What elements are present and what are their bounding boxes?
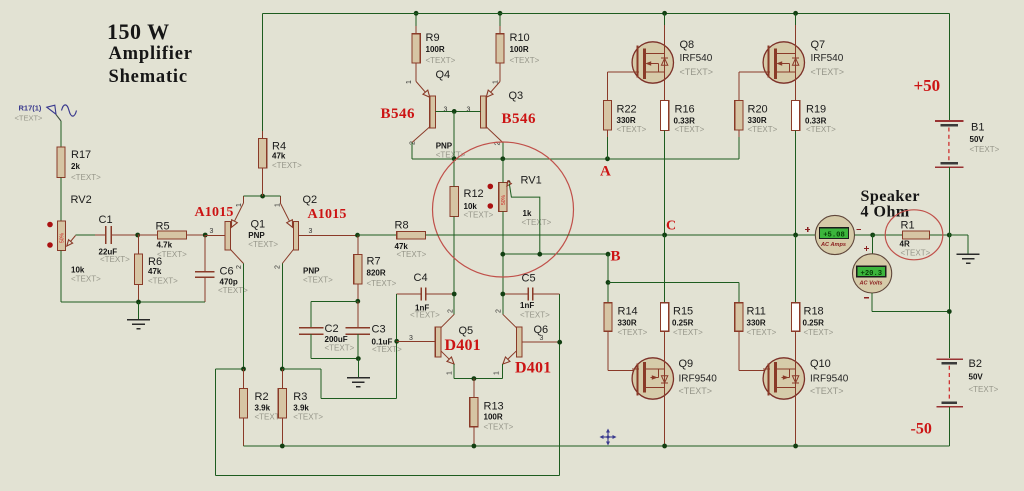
wire node B row [503,253,608,255]
svg-text:<TEXT>: <TEXT> [510,56,540,65]
svg-text:R12: R12 [464,188,484,200]
svg-text:<TEXT>: <TEXT> [522,218,552,227]
node Q1/R2 [241,367,246,372]
svg-text:Q2: Q2 [303,194,318,206]
label -50 [911,421,932,438]
svg-text:<TEXT>: <TEXT> [618,328,648,337]
svg-text:3: 3 [540,335,544,342]
capacitor C3 [346,301,403,354]
wire +50 rail [263,13,950,121]
svg-text:<TEXT>: <TEXT> [272,161,302,170]
wire C4 left column [396,294,398,399]
mosfet Q7 [763,39,844,83]
node C Q8 column [662,233,667,238]
node B wiper [537,252,542,257]
node base junction [452,109,457,114]
svg-text:C5: C5 [522,273,536,285]
svg-text:IRF9540: IRF9540 [679,374,718,385]
svg-text:2k: 2k [71,162,80,171]
capacitor C2 [299,323,355,353]
svg-text:150 W: 150 W [107,19,170,44]
ground mid [347,359,370,387]
node R10 top [498,11,503,16]
wire node C row [426,234,873,236]
node R13 bottom [472,444,477,449]
svg-text:R1: R1 [901,220,915,232]
wire B2 to bottom rail [948,407,950,446]
svg-text:<TEXT>: <TEXT> [15,114,44,123]
resistor R15 [661,235,704,337]
voltmeter [853,235,950,312]
svg-text:C: C [666,219,676,234]
svg-text:1: 1 [236,203,243,207]
resistor R14 [604,303,648,337]
node Q7 drain top [793,11,798,16]
resistor R22 [603,101,646,159]
wire B branch to R11 [608,282,739,302]
ground left [127,302,150,329]
transistor Q1 [205,196,278,263]
pin numbers Q1 [210,203,244,269]
svg-text:Speaker: Speaker [861,188,921,205]
svg-text:<TEXT>: <TEXT> [248,240,278,249]
node voltmeter tap [870,233,875,238]
battery B1 [935,121,999,167]
svg-text:2: 2 [448,309,455,313]
label B546 Q3 [502,111,537,127]
svg-text:<TEXT>: <TEXT> [617,125,647,134]
svg-text:330R: 330R [747,319,766,328]
svg-text:RV1: RV1 [521,175,542,187]
svg-text:0.25R: 0.25R [672,319,694,328]
svg-text:1: 1 [447,371,454,375]
resistor R13 [470,379,514,446]
wire R19 to C [795,130,797,235]
svg-text:<TEXT>: <TEXT> [747,328,777,337]
wire Q4 collector to A [411,143,413,159]
svg-text:<TEXT>: <TEXT> [325,344,355,353]
svg-text:D401: D401 [445,337,481,354]
svg-text:C2: C2 [325,323,339,335]
wire node A row [412,130,739,159]
wire left ground rail [61,250,205,302]
svg-text:C6: C6 [220,266,234,278]
node R6 bottom [136,300,141,305]
node Q10 bottom [793,444,798,449]
wire R12 column [453,159,455,314]
label A1015 Q2 [308,207,347,222]
svg-text:B: B [611,249,621,265]
resistor R8 [358,220,427,260]
svg-text:R15: R15 [673,306,693,318]
svg-text:Q3: Q3 [509,90,524,102]
pin numbers Q3 [467,80,502,146]
wire Q8 gate [608,72,632,101]
wire Q5 emitter [453,364,455,378]
svg-text:<TEXT>: <TEXT> [464,211,494,220]
node B branch [606,280,611,285]
capacitor C4 [397,272,455,320]
svg-text:Q7: Q7 [811,39,826,51]
label B546 Q4 [381,106,416,122]
node Q6 base feedback [557,340,562,345]
node C Q7 column [793,233,798,238]
svg-text:<TEXT>: <TEXT> [372,345,402,354]
wire feedback bottom [215,294,559,475]
node R13 top [472,376,477,381]
svg-text:R3: R3 [293,391,307,403]
svg-text:100R: 100R [510,45,529,54]
svg-text:<TEXT>: <TEXT> [673,328,703,337]
svg-text:A1015: A1015 [195,205,234,220]
resistor R2 [239,369,284,446]
wire emitter rail Q1-Q2 [244,195,281,197]
resistor R12 [450,184,494,220]
svg-text:R5: R5 [156,221,170,233]
svg-text:50V: 50V [969,372,984,381]
wire Q4-Q3 bases [435,110,480,112]
svg-text:<TEXT>: <TEXT> [811,67,845,77]
capacitor C6 [195,235,248,302]
svg-text:3: 3 [409,335,413,342]
transistor Q5 [397,314,473,364]
svg-text:50V: 50V [970,135,985,144]
svg-text:+5.08: +5.08 [823,231,845,239]
node Q2 base/R7/R8 [355,233,360,238]
svg-text:D401: D401 [515,360,551,377]
node R5/Q1 base/C6 [203,233,208,238]
svg-text:RV2: RV2 [71,194,92,206]
wire emitter rail Q5-Q6 [454,378,502,380]
resistor R4 [259,13,303,196]
svg-text:1: 1 [275,203,282,207]
svg-text:PNP: PNP [436,142,453,151]
pin numbers Q6 [494,309,544,375]
svg-text:<TEXT>: <TEXT> [410,311,440,320]
resistor R7 [354,235,397,301]
wire feedback top [215,369,243,475]
annotation ellipse speaker [885,210,943,260]
resistor R10 [496,13,540,81]
node Q8 drain top [662,11,667,16]
wire R7 to C2 [311,301,358,327]
wire Q7 gate [739,72,763,101]
svg-text:<TEXT>: <TEXT> [426,56,456,65]
label +50 [914,76,941,95]
node B right [606,252,611,257]
label node C [666,219,676,234]
svg-text:100R: 100R [426,45,445,54]
svg-text:<TEXT>: <TEXT> [970,145,1000,154]
resistor R17 [57,147,101,182]
node Q5 base [394,339,399,344]
wire Q10 gate [739,331,770,370]
transistor Q4 [412,69,466,160]
pin numbers Q4 [406,80,448,145]
wire Q3 collector down [502,143,504,159]
svg-text:820R: 820R [367,269,386,278]
node Q2/R3 [280,367,285,372]
svg-text:A1015: A1015 [308,207,347,222]
resistor R1 [873,220,950,258]
wire RV1 wiper [509,184,540,255]
svg-text:<TEXT>: <TEXT> [148,277,178,286]
svg-text:<TEXT>: <TEXT> [901,249,931,258]
svg-text:R22: R22 [617,103,637,115]
mosfet Q8 [632,39,713,83]
resistor R20 [735,101,778,135]
origin marker [600,429,617,446]
wire bases down to A [453,111,455,158]
wire Q9 gate [608,331,639,370]
mosfet Q10 [763,358,849,399]
capacitor C1 [95,214,138,264]
svg-text:Amplifier: Amplifier [109,44,193,64]
svg-text:1: 1 [494,371,501,375]
svg-text:<TEXT>: <TEXT> [71,173,101,182]
svg-text:3: 3 [210,228,214,235]
resistor R19 [792,101,837,135]
node C1/R5/R6 [135,233,140,238]
svg-text:B2: B2 [969,358,982,370]
svg-text:C3: C3 [372,324,386,336]
wire Q2 collector [281,264,283,370]
svg-text:R20: R20 [748,103,768,115]
node B RV1 bottom [500,252,505,257]
node A RV1 [500,156,505,161]
svg-text:330R: 330R [748,116,767,125]
svg-text:IRF540: IRF540 [811,53,844,64]
potentiometer RV1 [499,175,552,228]
svg-text:Q5: Q5 [459,325,474,337]
svg-text:AC Volts: AC Volts [858,281,882,287]
node R7/C2/C3 [355,299,360,304]
wire Q10 column [795,331,797,446]
svg-text:R14: R14 [618,306,638,318]
svg-text:<TEXT>: <TEXT> [100,255,130,264]
svg-text:R7: R7 [367,256,381,268]
battery B2 [936,358,998,407]
wire Q7 column [795,13,797,100]
svg-text:R17: R17 [71,149,91,161]
svg-text:Q8: Q8 [680,39,695,51]
svg-text:<TEXT>: <TEXT> [680,67,714,77]
svg-text:3: 3 [444,107,448,114]
svg-text:R13: R13 [484,401,504,413]
resistor R3 [278,369,323,446]
svg-text:Q10: Q10 [810,358,831,370]
wire Q6 emitter [502,364,504,378]
wire bottom rail [244,445,950,447]
node R9 top [414,11,419,16]
svg-text:R10: R10 [510,32,530,44]
svg-text:B1: B1 [971,122,984,134]
svg-text:<TEXT>: <TEXT> [71,275,101,284]
wire R17 to RV2 [60,178,62,222]
transistor Q6 [503,314,560,364]
svg-text:<TEXT>: <TEXT> [804,328,834,337]
ground right [949,235,979,263]
svg-text:1: 1 [493,80,500,84]
wire Q9 column [664,331,666,446]
label D401 Q5 [445,337,481,354]
svg-text:3: 3 [467,107,471,114]
node R1 right [947,233,952,238]
svg-text:10k: 10k [71,266,85,275]
svg-text:R9: R9 [426,32,440,44]
svg-text:<TEXT>: <TEXT> [810,386,844,396]
svg-text:IRF9540: IRF9540 [810,374,849,385]
svg-text:PNP: PNP [248,231,265,240]
label node B [611,249,621,265]
svg-text:Q4: Q4 [436,69,451,81]
node C4 right [452,292,457,297]
resistor R9 [412,13,456,81]
node A R12 [452,156,457,161]
svg-text:<TEXT>: <TEXT> [484,423,514,432]
svg-text:50%: 50% [501,194,507,205]
svg-text:<TEXT>: <TEXT> [293,413,323,422]
mosfet Q9 [632,358,717,399]
svg-text:100R: 100R [484,413,503,422]
label Speaker [861,188,921,221]
wire input to R17 [60,121,62,147]
pin numbers Q2 [275,203,313,269]
annotation ellipse bias [433,142,574,277]
wire R3 to corner [282,369,396,399]
svg-text:R2: R2 [255,391,269,403]
svg-text:+50: +50 [914,76,941,95]
svg-text:2: 2 [496,309,503,313]
svg-text:<TEXT>: <TEXT> [806,125,836,134]
svg-text:3.9k: 3.9k [255,404,271,413]
svg-text:<TEXT>: <TEXT> [397,250,427,259]
label D401 Q6 [515,360,551,377]
svg-text:<TEXT>: <TEXT> [675,125,705,134]
ammeter [805,215,861,254]
svg-text:0.33R: 0.33R [674,116,696,125]
svg-text:330R: 330R [617,116,636,125]
svg-text:0.25R: 0.25R [803,319,825,328]
capacitor C5 [503,273,560,320]
svg-text:50%: 50% [60,232,66,243]
wire ammeter to R1 node [855,234,873,236]
svg-text:1nF: 1nF [520,301,534,310]
svg-text:1: 1 [406,80,413,84]
wire C node down [948,235,950,358]
svg-text:3.9k: 3.9k [293,404,309,413]
svg-text:3: 3 [309,228,313,235]
resistor R5 [138,221,206,260]
svg-text:IRF540: IRF540 [680,53,713,64]
svg-text:1k: 1k [523,209,532,218]
svg-text:R17(1): R17(1) [19,104,42,113]
wire Q8 column [664,13,666,100]
svg-text:4R: 4R [900,239,910,248]
svg-text:PNP: PNP [303,267,320,276]
svg-text:R19: R19 [806,103,826,115]
svg-text:<TEXT>: <TEXT> [520,311,550,320]
svg-text:2: 2 [410,141,417,145]
svg-text:B546: B546 [381,106,416,122]
svg-text:B546: B546 [502,111,537,127]
svg-text:Q6: Q6 [534,324,549,336]
wire RV1 column [502,159,504,314]
svg-text:R16: R16 [675,103,695,115]
wire B to R14 [607,254,609,303]
svg-text:47k: 47k [272,152,286,161]
transistor Q2 [280,194,357,285]
resistor R11 [735,303,777,337]
wire B1 to C row [948,167,950,235]
resistor R18 [792,235,834,337]
transistor Q3 [481,82,524,143]
node B2 top branch [947,309,952,314]
svg-text:0.33R: 0.33R [805,116,827,125]
svg-text:2: 2 [236,265,243,269]
node C5 left [500,292,505,297]
wire Q1 collector [243,264,245,370]
label node A [600,164,611,180]
svg-text:330R: 330R [618,319,637,328]
svg-text:Q9: Q9 [679,358,694,370]
svg-text:Shematic: Shematic [109,67,188,87]
svg-text:Q1: Q1 [251,219,266,231]
resistor R6 [134,235,178,302]
svg-text:C1: C1 [99,214,113,226]
svg-text:+20.3: +20.3 [861,270,883,278]
title text [107,19,193,87]
label A1015 Q1 [195,205,234,220]
svg-text:4.7k: 4.7k [157,241,173,250]
svg-text:<TEXT>: <TEXT> [969,385,999,394]
svg-text:2: 2 [275,265,282,269]
node Q9 bottom [662,444,667,449]
wire RV2 wiper to C1 [76,234,95,236]
node A R22 [605,156,610,161]
svg-text:AC Amps: AC Amps [820,242,846,248]
svg-text:47k: 47k [148,267,162,276]
wire C2/C3 bottom [311,334,358,359]
wire R16 to C [664,130,666,235]
node ground mid [356,356,361,361]
node R4 emitter rail [260,194,265,199]
potentiometer RV2 [47,194,101,284]
node R3 bottom [280,444,285,449]
svg-text:A: A [600,164,611,180]
svg-text:R8: R8 [395,220,409,232]
svg-text:R18: R18 [804,306,824,318]
svg-text:<TEXT>: <TEXT> [679,386,713,396]
resistor R16 [661,101,705,135]
pin numbers Q5 [409,309,455,375]
svg-text:R11: R11 [747,306,766,318]
input terminal R17(1) [15,104,77,123]
svg-text:<TEXT>: <TEXT> [367,279,397,288]
svg-text:C4: C4 [414,272,428,284]
svg-text:<TEXT>: <TEXT> [748,125,778,134]
svg-text:-50: -50 [911,421,932,438]
svg-text:<TEXT>: <TEXT> [303,276,333,285]
